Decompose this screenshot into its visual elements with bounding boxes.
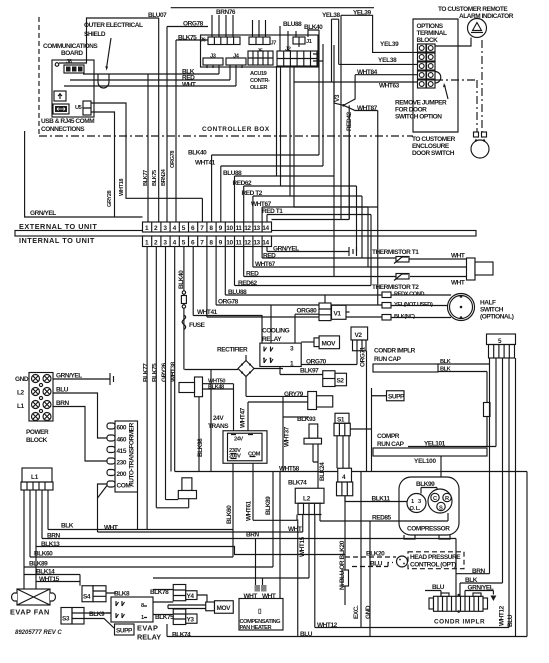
svg-text:GND: GND <box>15 376 29 383</box>
svg-text:OLLER: OLLER <box>250 85 267 91</box>
svg-text:14: 14 <box>262 225 269 232</box>
svg-text:BLK40: BLK40 <box>188 150 207 157</box>
svg-text:TO CUSTOMER: TO CUSTOMER <box>412 136 456 143</box>
svg-text:WHT: WHT <box>451 253 465 260</box>
svg-text:230: 230 <box>117 460 127 467</box>
svg-text:REMOVE JUMPER: REMOVE JUMPER <box>395 100 447 107</box>
svg-text:WHT: WHT <box>104 525 118 532</box>
svg-text:EVAP: EVAP <box>137 624 158 633</box>
svg-text:BLK77: BLK77 <box>143 170 149 186</box>
svg-text:11: 11 <box>236 225 243 232</box>
svg-text:RELAY: RELAY <box>137 633 161 642</box>
svg-text:S4: S4 <box>83 594 91 601</box>
svg-text:89205777 REV C: 89205777 REV C <box>15 630 62 636</box>
svg-text:YEL38: YEL38 <box>322 12 340 19</box>
svg-text:GND: GND <box>365 605 372 619</box>
svg-text:R: R <box>445 496 449 502</box>
svg-text:BLK20: BLK20 <box>366 551 385 558</box>
svg-text:RELAY: RELAY <box>262 336 282 343</box>
svg-text:10: 10 <box>226 240 233 247</box>
svg-text:ORG71: ORG71 <box>360 346 367 367</box>
svg-text:L1: L1 <box>31 474 39 481</box>
svg-text:BLK97: BLK97 <box>300 368 319 375</box>
svg-text:WHT61: WHT61 <box>246 500 253 521</box>
svg-text:(OPTIONAL): (OPTIONAL) <box>480 314 514 321</box>
svg-text:THERMISTOR T1: THERMISTOR T1 <box>372 249 419 256</box>
svg-text:BLOCK: BLOCK <box>26 437 48 444</box>
svg-text:YEL100: YEL100 <box>414 458 437 465</box>
svg-text:N\ BLU OR BLK20: N\ BLU OR BLK20 <box>339 540 346 590</box>
svg-text:FUSE: FUSE <box>189 322 206 329</box>
svg-text:SUPP: SUPP <box>116 628 133 635</box>
svg-text:SHIELD: SHIELD <box>84 31 106 38</box>
svg-text:BLK48: BLK48 <box>208 385 224 391</box>
svg-text:EXC.: EXC. <box>353 605 360 619</box>
svg-text:10: 10 <box>226 225 233 232</box>
svg-text:OPTIONS: OPTIONS <box>417 23 444 30</box>
svg-text:RUN CAP: RUN CAP <box>377 441 405 448</box>
svg-text:USB & RJ45 COMM: USB & RJ45 COMM <box>41 118 94 125</box>
svg-text:WHT37: WHT37 <box>284 426 291 447</box>
svg-text:ORG80: ORG80 <box>297 308 318 315</box>
svg-text:BLK75: BLK75 <box>152 363 159 382</box>
svg-text:WHT: WHT <box>182 82 196 89</box>
svg-text:RED42: RED42 <box>346 111 353 131</box>
svg-text:L1: L1 <box>17 403 25 410</box>
svg-text:WHT47: WHT47 <box>240 407 247 428</box>
svg-text:BLOCK: BLOCK <box>417 37 439 44</box>
svg-text:CONTROLLER BOX: CONTROLLER BOX <box>202 126 270 133</box>
svg-text:S2: S2 <box>337 378 345 385</box>
svg-text:HEAD PRESSURE: HEAD PRESSURE <box>410 554 461 561</box>
svg-text:BLK(NC): BLK(NC) <box>394 314 415 320</box>
svg-text:BLK75: BLK75 <box>152 170 158 186</box>
svg-text:SUPP: SUPP <box>388 394 405 401</box>
svg-text:BLK9: BLK9 <box>89 611 105 618</box>
svg-text:1: 1 <box>141 615 144 621</box>
svg-text:L2: L2 <box>17 390 25 397</box>
svg-text:WHT18: WHT18 <box>119 179 125 196</box>
svg-text:TERMINAL: TERMINAL <box>417 30 447 37</box>
svg-text:WHT58: WHT58 <box>279 466 300 473</box>
svg-text:BLK40: BLK40 <box>178 270 185 289</box>
svg-text:CONTR-: CONTR- <box>250 78 270 84</box>
svg-text:RED: RED <box>182 75 195 82</box>
svg-text:DOOR SWITCH: DOOR SWITCH <box>412 150 455 157</box>
svg-text:YEL38: YEL38 <box>378 57 397 64</box>
svg-text:PAN HEATER: PAN HEATER <box>240 625 272 631</box>
svg-text:14: 14 <box>262 240 269 247</box>
svg-text:ORG78: ORG78 <box>170 151 176 168</box>
svg-text:GRY28: GRY28 <box>107 191 113 207</box>
svg-text:WHT: WHT <box>451 280 465 287</box>
svg-text:ENCLOSURE: ENCLOSURE <box>412 143 450 150</box>
svg-text:12: 12 <box>244 225 251 232</box>
svg-text:Y3: Y3 <box>187 617 195 624</box>
svg-text:WHT15: WHT15 <box>299 536 306 557</box>
svg-text:GRN/YEL: GRN/YEL <box>30 210 56 217</box>
svg-text:BLU: BLU <box>507 614 514 627</box>
svg-text:C: C <box>433 496 437 502</box>
svg-text:200: 200 <box>117 471 127 478</box>
svg-text:600: 600 <box>117 425 127 432</box>
svg-text:J6: J6 <box>200 38 206 44</box>
svg-text:BLK77: BLK77 <box>143 363 150 382</box>
svg-text:V3: V3 <box>334 94 341 102</box>
svg-text:POWER: POWER <box>26 429 49 436</box>
svg-text:RECTIFIER: RECTIFIER <box>217 347 248 354</box>
svg-text:GRY26: GRY26 <box>161 362 168 382</box>
svg-text:11: 11 <box>236 240 243 247</box>
svg-text:CONTROL (OPT): CONTROL (OPT) <box>410 562 456 569</box>
svg-text:1: 1 <box>411 499 414 505</box>
svg-text:MOV: MOV <box>322 341 337 348</box>
svg-text:AUTO-TRANSFORMER: AUTO-TRANSFORMER <box>129 422 136 487</box>
svg-text:EXTERNAL TO UNIT: EXTERNAL TO UNIT <box>19 222 97 231</box>
svg-text:WHT12: WHT12 <box>499 605 506 626</box>
svg-text:TO CUSTOMER REMOTE: TO CUSTOMER REMOTE <box>438 6 508 13</box>
svg-text:ACU19: ACU19 <box>250 71 267 77</box>
svg-text:YEL39: YEL39 <box>380 41 399 48</box>
svg-text:BLK74: BLK74 <box>288 480 307 487</box>
svg-text:BLK24: BLK24 <box>319 462 326 481</box>
svg-text:BRN76: BRN76 <box>216 9 236 16</box>
svg-text:V1: V1 <box>334 311 342 318</box>
svg-text:SWITCH: SWITCH <box>480 307 504 314</box>
svg-text:24V: 24V <box>213 415 224 422</box>
svg-text:COMPRESSOR: COMPRESSOR <box>407 526 450 533</box>
svg-text:V2: V2 <box>355 332 363 339</box>
svg-text:8: 8 <box>141 603 144 609</box>
svg-text:O. L.: O. L. <box>410 506 421 512</box>
svg-text:SWITCH OPTION: SWITCH OPTION <box>395 114 442 121</box>
svg-text:CONDR IMPLR: CONDR IMPLR <box>434 619 485 626</box>
svg-text:RUN CAP: RUN CAP <box>374 356 402 363</box>
svg-text:MOV: MOV <box>217 605 232 612</box>
svg-text:415: 415 <box>117 448 127 455</box>
svg-text:COMMUNICATIONS: COMMUNICATIONS <box>43 43 98 50</box>
svg-text:BRN: BRN <box>246 532 259 539</box>
svg-text:U5: U5 <box>75 105 82 111</box>
svg-text:J8: J8 <box>66 59 72 65</box>
svg-text:EVAP FAN: EVAP FAN <box>10 608 50 617</box>
svg-text:HALF: HALF <box>480 300 496 307</box>
svg-text:THERMISTOR T2: THERMISTOR T2 <box>372 284 419 291</box>
svg-text:COMPR: COMPR <box>377 433 400 440</box>
svg-text:YEL(NOT USED): YEL(NOT USED) <box>394 302 433 308</box>
svg-text:13: 13 <box>253 225 260 232</box>
svg-text:BOARD: BOARD <box>61 50 83 57</box>
svg-text:BLK89: BLK89 <box>265 496 272 515</box>
svg-text:COOLING: COOLING <box>262 328 290 335</box>
svg-text:FOR DOOR: FOR DOOR <box>395 107 427 114</box>
svg-text:BLK: BLK <box>61 523 74 530</box>
svg-text:BLU88: BLU88 <box>283 21 302 28</box>
svg-text:L2: L2 <box>303 496 311 503</box>
svg-text:BLK98: BLK98 <box>197 438 204 457</box>
svg-text:WHT41: WHT41 <box>195 160 216 167</box>
svg-text:J1: J1 <box>306 39 312 45</box>
svg-text:WHT87: WHT87 <box>357 105 378 112</box>
svg-text:CONNECTIONS: CONNECTIONS <box>41 126 85 133</box>
svg-text:REDX COND: REDX COND <box>394 292 424 298</box>
svg-text:BLK60: BLK60 <box>226 505 233 524</box>
svg-text:S1: S1 <box>337 417 345 424</box>
svg-text:WHT63: WHT63 <box>379 83 400 90</box>
svg-text:BLK74: BLK74 <box>172 632 191 639</box>
svg-text:24V: 24V <box>234 437 243 443</box>
svg-text:Y4: Y4 <box>187 593 195 600</box>
svg-text:3: 3 <box>418 499 421 505</box>
svg-text:ALARM INDICATOR: ALARM INDICATOR <box>459 13 514 20</box>
svg-text:INTERNAL TO UNIT: INTERNAL TO UNIT <box>19 236 95 245</box>
svg-text:BRN24: BRN24 <box>161 168 167 186</box>
svg-text:13: 13 <box>253 240 260 247</box>
svg-text:CONDR IMPLR: CONDR IMPLR <box>374 348 416 355</box>
svg-text:OUTER ELECTRICAL: OUTER ELECTRICAL <box>84 22 143 29</box>
svg-text:12: 12 <box>244 240 251 247</box>
svg-text:460: 460 <box>117 437 127 444</box>
svg-text:J7: J7 <box>271 41 277 47</box>
svg-text:COM: COM <box>117 483 131 490</box>
svg-text:S3: S3 <box>62 616 70 623</box>
